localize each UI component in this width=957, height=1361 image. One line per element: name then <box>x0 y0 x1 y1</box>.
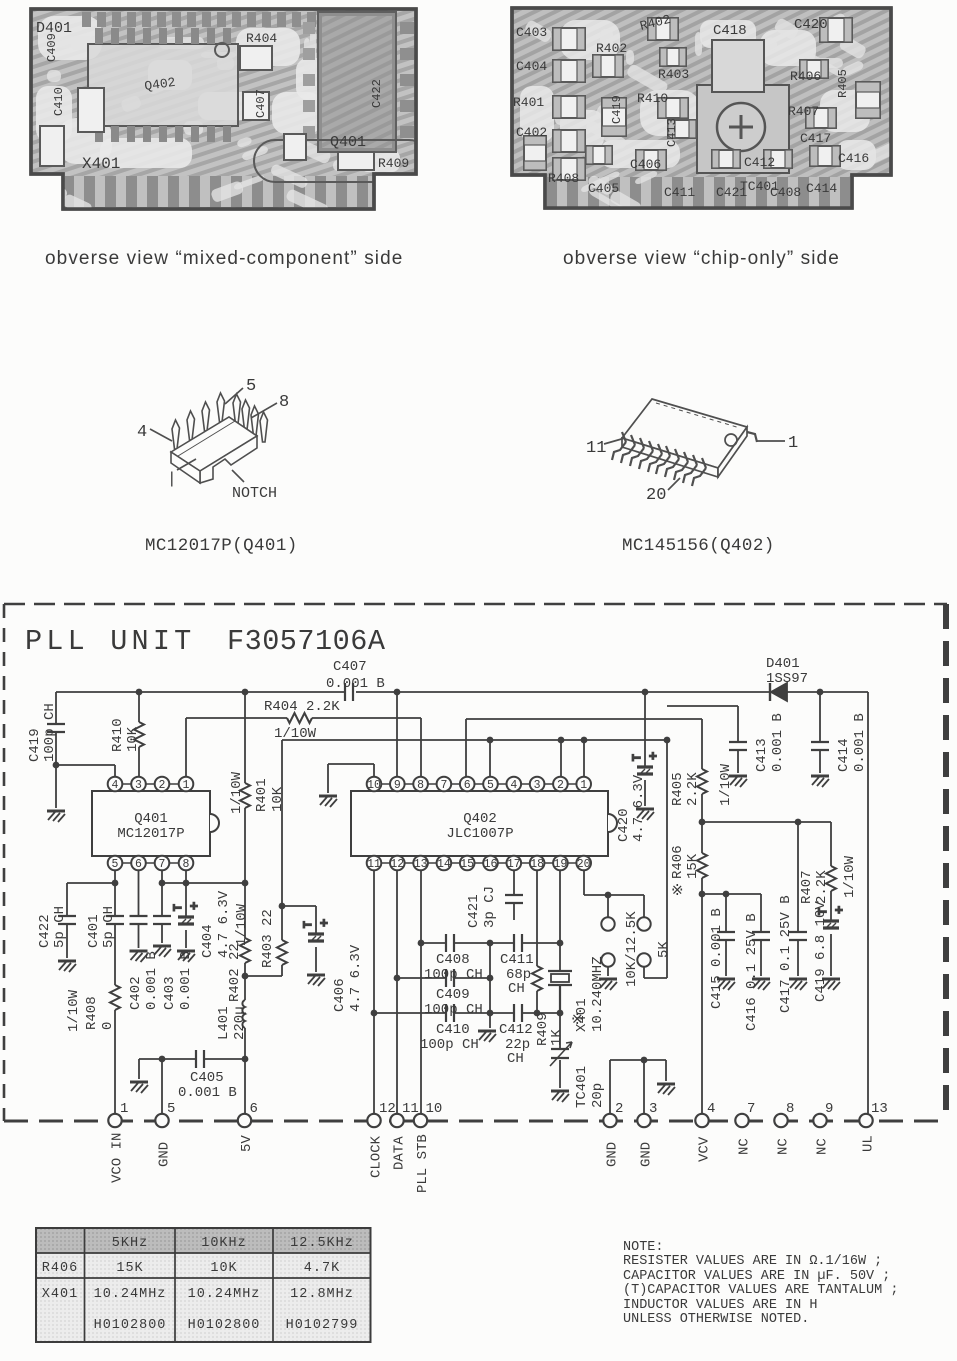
svg-text:GND: GND <box>639 1142 655 1167</box>
svg-text:20: 20 <box>646 486 666 505</box>
svg-text:C419: C419 <box>27 728 43 762</box>
svg-text:6: 6 <box>135 858 142 871</box>
svg-text:R404: R404 <box>246 31 277 46</box>
svg-text:C408: C408 <box>436 952 470 968</box>
svg-text:C412: C412 <box>499 1022 533 1038</box>
svg-text:R401: R401 <box>513 95 544 110</box>
svg-text:H0102799: H0102799 <box>286 1318 359 1333</box>
svg-text:C421: C421 <box>466 894 482 928</box>
svg-text:11: 11 <box>367 858 381 871</box>
svg-text:5p CH: 5p CH <box>52 906 68 948</box>
svg-text:C416: C416 <box>838 151 869 166</box>
svg-text:12: 12 <box>390 858 404 871</box>
svg-text:C414: C414 <box>836 738 852 772</box>
svg-text:C407: C407 <box>333 659 367 675</box>
svg-text:C414: C414 <box>806 181 837 196</box>
svg-text:R403 22: R403 22 <box>260 909 276 968</box>
svg-text:Q401: Q401 <box>330 134 366 151</box>
svg-text:3: 3 <box>135 779 142 792</box>
svg-text:5: 5 <box>246 377 256 396</box>
svg-text:2.2K: 2.2K <box>814 870 830 904</box>
svg-text:GND: GND <box>605 1142 621 1167</box>
svg-text:UL: UL <box>861 1135 877 1152</box>
svg-text:18: 18 <box>530 858 544 871</box>
svg-text:20p: 20p <box>590 1083 606 1108</box>
svg-text:Q401: Q401 <box>134 811 168 827</box>
svg-text:10.24MHz: 10.24MHz <box>188 1287 261 1302</box>
svg-text:0.001 B: 0.001 B <box>852 713 868 772</box>
svg-text:C419 6.8 10V: C419 6.8 10V <box>813 901 829 1002</box>
svg-text:UNLESS OTHERWISE NOTED.: UNLESS OTHERWISE NOTED. <box>623 1312 809 1327</box>
svg-text:C404: C404 <box>516 59 547 74</box>
svg-text:NC: NC <box>737 1138 753 1155</box>
svg-text:4: 4 <box>112 779 119 792</box>
svg-text:NC: NC <box>815 1138 831 1155</box>
svg-text:1: 1 <box>120 1101 128 1117</box>
svg-text:100p CH: 100p CH <box>424 967 483 983</box>
svg-text:12.8MHz: 12.8MHz <box>290 1287 354 1302</box>
svg-text:(T)CAPACITOR VALUES ARE TANTAL: (T)CAPACITOR VALUES ARE TANTALUM ; <box>623 1283 898 1298</box>
svg-text:|: | <box>167 470 177 488</box>
svg-text:7: 7 <box>159 858 166 871</box>
svg-text:8: 8 <box>183 858 190 871</box>
svg-text:10K: 10K <box>210 1261 237 1276</box>
svg-text:14: 14 <box>437 858 451 871</box>
svg-text:1SS97: 1SS97 <box>766 671 808 687</box>
svg-text:C406: C406 <box>630 157 661 172</box>
svg-text:0.001 B: 0.001 B <box>144 951 160 1010</box>
svg-text:+: + <box>835 903 843 918</box>
svg-text:R406: R406 <box>42 1261 78 1276</box>
svg-text:R407: R407 <box>788 104 819 119</box>
svg-text:R410: R410 <box>110 718 126 752</box>
svg-text:C416 0.1 25V B: C416 0.1 25V B <box>744 913 760 1031</box>
svg-text:C422: C422 <box>370 79 384 108</box>
svg-text:13: 13 <box>414 858 428 871</box>
svg-text:0.001 B: 0.001 B <box>178 1085 237 1101</box>
svg-text:Q402: Q402 <box>463 811 497 827</box>
svg-text:C417: C417 <box>800 131 831 146</box>
svg-text:11: 11 <box>586 439 606 458</box>
svg-text:R406: R406 <box>670 845 686 879</box>
svg-text:C420: C420 <box>616 808 632 842</box>
svg-text:NC: NC <box>776 1138 792 1155</box>
svg-text:C410: C410 <box>52 87 66 116</box>
svg-text:1/10W: 1/10W <box>229 771 245 814</box>
svg-text:C412: C412 <box>744 155 775 170</box>
svg-text:R407: R407 <box>799 870 815 904</box>
svg-text:VCV: VCV <box>697 1136 713 1162</box>
svg-text:C409: C409 <box>45 33 59 62</box>
svg-text:obverse view “chip-only” side: obverse view “chip-only” side <box>563 248 840 269</box>
svg-text:220µ: 220µ <box>232 1006 248 1040</box>
svg-text:12.5KHz: 12.5KHz <box>290 1236 354 1251</box>
svg-text:VCO IN: VCO IN <box>110 1133 126 1183</box>
svg-text:R402: R402 <box>596 41 627 56</box>
svg-text:8: 8 <box>279 393 289 412</box>
svg-text:PLL STB: PLL STB <box>415 1134 431 1193</box>
svg-text:INDUCTOR VALUES ARE IN H: INDUCTOR VALUES ARE IN H <box>623 1298 817 1313</box>
svg-text:16: 16 <box>484 858 498 871</box>
svg-text:3p CJ: 3p CJ <box>482 886 498 928</box>
svg-text:4: 4 <box>510 779 517 792</box>
svg-text:C408: C408 <box>770 185 801 200</box>
svg-text:1/10W: 1/10W <box>842 855 858 898</box>
svg-text:2.2K: 2.2K <box>685 772 701 806</box>
svg-text:+: + <box>649 749 657 764</box>
svg-text:10.240MHZ: 10.240MHZ <box>590 956 606 1032</box>
svg-text:F3057106A: F3057106A <box>227 625 386 658</box>
svg-text:obverse view “mixed-component”: obverse view “mixed-component” side <box>45 248 403 269</box>
svg-text:1/10W: 1/10W <box>66 989 82 1032</box>
svg-text:JLC1007P: JLC1007P <box>446 826 513 842</box>
svg-text:R401: R401 <box>254 778 270 812</box>
svg-text:4.7 6.3V: 4.7 6.3V <box>631 774 647 842</box>
svg-text:100p CH: 100p CH <box>420 1037 479 1053</box>
svg-text:8: 8 <box>786 1101 794 1117</box>
svg-text:C411: C411 <box>664 185 695 200</box>
svg-text:C413: C413 <box>754 738 770 772</box>
svg-text:R403: R403 <box>658 67 689 82</box>
svg-text:5V: 5V <box>239 1135 255 1152</box>
svg-text:D401: D401 <box>766 656 800 672</box>
svg-text:9: 9 <box>394 779 401 792</box>
svg-text:C417 0.1 25V B: C417 0.1 25V B <box>778 895 794 1013</box>
svg-text:2: 2 <box>159 779 166 792</box>
svg-text:CH: CH <box>508 981 525 997</box>
svg-text:1/10W: 1/10W <box>718 763 734 806</box>
svg-text:5K: 5K <box>656 941 672 958</box>
svg-text:0.001 B: 0.001 B <box>770 713 786 772</box>
svg-text:C419: C419 <box>610 95 624 124</box>
svg-text:DATA: DATA <box>392 1136 408 1170</box>
svg-text:X401: X401 <box>42 1287 78 1302</box>
svg-text:※: ※ <box>671 883 684 900</box>
svg-text:5: 5 <box>167 1101 175 1117</box>
svg-text:6: 6 <box>250 1101 258 1117</box>
svg-text:C422: C422 <box>37 914 53 948</box>
svg-text:8: 8 <box>417 779 424 792</box>
svg-text:C403: C403 <box>516 25 547 40</box>
svg-text:0.001 B: 0.001 B <box>178 951 194 1010</box>
svg-text:10K: 10K <box>125 726 141 752</box>
svg-text:2: 2 <box>557 779 564 792</box>
svg-text:R409: R409 <box>378 156 409 171</box>
svg-text:2: 2 <box>615 1101 623 1117</box>
svg-text:MC145156(Q402): MC145156(Q402) <box>622 536 775 556</box>
svg-text:C413: C413 <box>665 118 679 147</box>
svg-text:10: 10 <box>367 779 381 792</box>
svg-text:19: 19 <box>553 858 567 871</box>
svg-text:10K: 10K <box>270 786 286 812</box>
svg-text:1/10W: 1/10W <box>234 903 250 946</box>
svg-text:RESISTER VALUES ARE IN Ω.1/16: RESISTER VALUES ARE IN Ω.1/16W ; <box>623 1254 882 1269</box>
svg-text:15K: 15K <box>685 853 701 879</box>
svg-text:TC401: TC401 <box>574 1066 590 1108</box>
svg-text:H0102800: H0102800 <box>188 1318 261 1333</box>
svg-text:10KHz: 10KHz <box>201 1236 247 1251</box>
svg-text:R405: R405 <box>836 69 850 98</box>
svg-text:C401: C401 <box>86 914 102 948</box>
svg-text:C420: C420 <box>794 17 828 33</box>
svg-text:C405: C405 <box>588 181 619 196</box>
svg-text:3: 3 <box>534 779 541 792</box>
svg-text:NOTE:: NOTE: <box>623 1240 664 1255</box>
svg-text:CH: CH <box>507 1051 524 1067</box>
svg-text:100p CH: 100p CH <box>424 1002 483 1018</box>
svg-text:R405: R405 <box>670 772 686 806</box>
svg-text:MC12017P: MC12017P <box>117 826 184 842</box>
svg-text:C409: C409 <box>436 987 470 1003</box>
svg-text:6: 6 <box>464 779 471 792</box>
svg-text:C415 0.001 B: C415 0.001 B <box>709 908 725 1009</box>
svg-text:5p CH: 5p CH <box>101 906 117 948</box>
svg-text:CLOCK: CLOCK <box>369 1135 385 1178</box>
svg-text:1: 1 <box>580 779 587 792</box>
svg-text:NOTCH: NOTCH <box>232 485 277 502</box>
svg-text:H0102800: H0102800 <box>94 1318 167 1333</box>
svg-text:4.7K: 4.7K <box>304 1261 340 1276</box>
svg-text:0: 0 <box>100 1022 116 1030</box>
svg-text:C403: C403 <box>162 976 178 1010</box>
svg-text:17: 17 <box>507 858 521 871</box>
svg-text:L401: L401 <box>216 1006 232 1040</box>
svg-text:T: T <box>303 921 315 928</box>
svg-text:C405: C405 <box>190 1070 224 1086</box>
svg-text:4.7 6.3V: 4.7 6.3V <box>348 944 364 1012</box>
svg-text:10.24MHz: 10.24MHz <box>94 1287 167 1302</box>
svg-text:10K/12.5K: 10K/12.5K <box>624 911 640 987</box>
svg-text:MC12017P(Q401): MC12017P(Q401) <box>145 536 298 556</box>
svg-text:+: + <box>190 899 198 914</box>
svg-text:9: 9 <box>825 1101 833 1117</box>
svg-text:R408: R408 <box>84 996 100 1030</box>
svg-text:R406: R406 <box>790 69 821 84</box>
svg-text:5: 5 <box>487 779 494 792</box>
svg-text:C406: C406 <box>332 978 348 1012</box>
svg-text:C411: C411 <box>500 952 534 968</box>
svg-text:1: 1 <box>788 434 798 453</box>
svg-text:R410: R410 <box>637 91 668 106</box>
svg-text:R408: R408 <box>548 171 579 186</box>
svg-text:4: 4 <box>137 423 147 442</box>
svg-text:3: 3 <box>649 1101 657 1117</box>
svg-text:※: ※ <box>571 1012 584 1029</box>
svg-text:4: 4 <box>707 1101 715 1117</box>
svg-text:C402: C402 <box>128 976 144 1010</box>
svg-text:20: 20 <box>577 858 591 871</box>
svg-text:1: 1 <box>183 779 190 792</box>
svg-text:1K: 1K <box>549 1029 565 1046</box>
svg-text:10: 10 <box>426 1101 443 1117</box>
svg-text:+: + <box>320 916 328 931</box>
svg-text:15K: 15K <box>116 1261 143 1276</box>
svg-text:7: 7 <box>440 779 447 792</box>
svg-text:CAPACITOR VALUES ARE IN µF. 50: CAPACITOR VALUES ARE IN µF. 50V ; <box>623 1269 890 1284</box>
svg-text:GND: GND <box>157 1142 173 1167</box>
svg-text:100p CH: 100p CH <box>42 703 58 762</box>
svg-text:C402: C402 <box>516 125 547 140</box>
svg-text:T: T <box>173 904 185 911</box>
svg-text:C421: C421 <box>716 185 747 200</box>
svg-text:15: 15 <box>460 858 474 871</box>
svg-text:R404 2.2K: R404 2.2K <box>264 699 340 715</box>
svg-text:C410: C410 <box>436 1022 470 1038</box>
svg-text:1/10W: 1/10W <box>274 726 317 742</box>
svg-text:13: 13 <box>871 1101 888 1117</box>
svg-text:C407: C407 <box>254 89 268 118</box>
svg-text:PLL UNIT: PLL UNIT <box>25 625 195 658</box>
svg-text:0.001 B: 0.001 B <box>326 676 385 692</box>
svg-text:T: T <box>632 754 644 761</box>
svg-text:7: 7 <box>747 1101 755 1117</box>
svg-text:C404: C404 <box>200 924 216 958</box>
svg-text:5KHz: 5KHz <box>112 1236 148 1251</box>
svg-text:5: 5 <box>112 858 119 871</box>
svg-text:C418: C418 <box>713 23 747 39</box>
svg-text:X401: X401 <box>82 155 120 173</box>
svg-text:R402 22: R402 22 <box>227 943 243 1002</box>
